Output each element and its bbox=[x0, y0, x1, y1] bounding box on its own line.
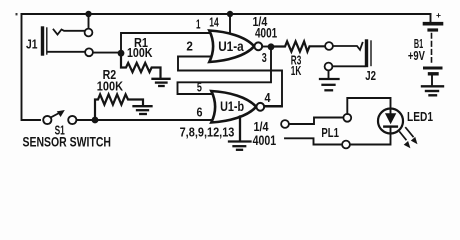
svg-text:1K: 1K bbox=[291, 64, 302, 78]
svg-text:100K: 100K bbox=[127, 45, 153, 60]
LED1 emission arrows bbox=[406, 128, 413, 137]
wire J1 sleeve to node bbox=[93, 52, 121, 54]
svg-text:6: 6 bbox=[197, 105, 203, 119]
svg-text:LED1: LED1 bbox=[407, 109, 433, 124]
wire sensor line to pin 6 bbox=[77, 119, 212, 121]
resistor R2 bbox=[95, 94, 143, 120]
svg-text:4001: 4001 bbox=[253, 133, 277, 148]
switch S1 left contact bbox=[43, 116, 51, 124]
wire pin1 riser and input bbox=[121, 33, 210, 53]
node junction R2 on sensor line bbox=[92, 117, 99, 124]
resistor R3 bbox=[271, 41, 325, 51]
switch S1 right contact bbox=[68, 116, 76, 124]
node PL1 right upper contact bbox=[343, 114, 351, 122]
battery B1 bbox=[425, 14, 442, 85]
wire J1 tip riser bbox=[88, 14, 90, 29]
switch S1 arm with arrow bbox=[51, 113, 60, 118]
wire pin 3 output bbox=[262, 46, 271, 48]
ground J2 bbox=[320, 79, 339, 90]
node PL1 right lower contact bbox=[342, 141, 350, 149]
scan speck bbox=[16, 13, 18, 15]
node junction R1 / pin1 bbox=[118, 50, 125, 57]
svg-text:1: 1 bbox=[196, 17, 201, 31]
jack J1 body bbox=[43, 28, 47, 54]
wire LED loop bottom bbox=[350, 134, 391, 145]
node PL1 left upper contact bbox=[281, 120, 289, 128]
wire PL1 upper bbox=[289, 118, 343, 125]
svg-text:14: 14 bbox=[209, 15, 219, 29]
wire J2 sleeve bbox=[333, 65, 365, 67]
node junction pin14 riser on rail bbox=[227, 11, 233, 17]
wire J1 sleeve contact bbox=[48, 51, 86, 53]
svg-text:J1: J1 bbox=[26, 37, 38, 52]
ground R2 bbox=[134, 106, 152, 114]
op-amp gate U1-b NOR bbox=[211, 91, 264, 123]
svg-text:100K: 100K bbox=[97, 78, 124, 93]
svg-text:+9V: +9V bbox=[408, 48, 425, 63]
svg-text:J2: J2 bbox=[365, 68, 376, 83]
svg-text:PL1: PL1 bbox=[321, 125, 339, 140]
LED LED1 bbox=[378, 109, 403, 134]
wire PL1 lower open lead bbox=[285, 138, 342, 144]
jack J2 body bbox=[367, 41, 372, 66]
svg-text:4: 4 bbox=[265, 91, 271, 105]
wire pin 14 riser bbox=[229, 14, 231, 34]
svg-text:U1-a: U1-a bbox=[218, 38, 244, 54]
svg-text:5: 5 bbox=[197, 81, 202, 95]
node J1 tip terminal circle bbox=[85, 29, 93, 37]
ground R1 bbox=[153, 79, 170, 86]
svg-text:+: + bbox=[436, 10, 441, 20]
wire pin 4 output riser bbox=[264, 106, 282, 108]
wire left rail down to S1 bbox=[22, 14, 41, 120]
svg-text:SENSOR SWITCH: SENSOR SWITCH bbox=[23, 133, 112, 149]
svg-text:2: 2 bbox=[186, 40, 193, 54]
svg-text:4001: 4001 bbox=[255, 26, 278, 41]
wire LED loop top bbox=[347, 98, 390, 114]
wire top +9V rail bbox=[22, 13, 431, 15]
ground U1-b pins 7,8,9,12,13 bbox=[239, 117, 241, 141]
wire pin3 drop to lower loop / pin 5 bbox=[178, 47, 272, 94]
wire J2 sleeve to ground bbox=[328, 71, 330, 78]
svg-text:7,8,9,12,13: 7,8,9,12,13 bbox=[180, 124, 235, 139]
node J2 tip terminal circle bbox=[325, 42, 333, 50]
svg-text:U1-b: U1-b bbox=[220, 98, 244, 114]
op-amp gate U1-a NOR bbox=[209, 31, 262, 63]
ground battery B1 bbox=[422, 86, 443, 95]
node junction J1 tip riser on rail bbox=[85, 11, 91, 17]
svg-text:3: 3 bbox=[262, 51, 267, 65]
resistor R1 bbox=[121, 53, 161, 77]
node junction pin3 bbox=[268, 43, 275, 50]
jack J1 tip contact bbox=[54, 30, 85, 35]
jack J2 tip contact bbox=[333, 43, 363, 50]
node J1 sleeve terminal circle bbox=[85, 48, 93, 56]
node J2 sleeve terminal circle bbox=[325, 63, 333, 71]
wire pin 2 feedback loop bbox=[178, 57, 282, 107]
